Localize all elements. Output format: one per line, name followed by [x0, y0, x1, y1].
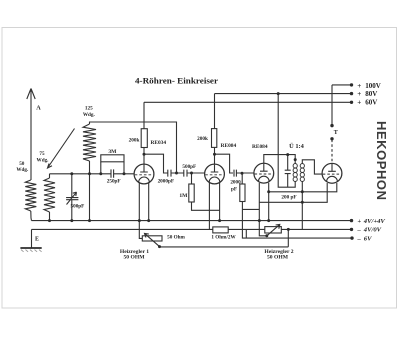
svg-text:6V: 6V [364, 235, 372, 242]
svg-text:4-Röhren- Einkreiser: 4-Röhren- Einkreiser [135, 76, 219, 85]
svg-text:4V/+4V: 4V/+4V [363, 218, 386, 225]
svg-text:200k: 200k [129, 138, 140, 144]
svg-text:125: 125 [85, 106, 93, 112]
svg-text:2000: 2000 [230, 180, 241, 186]
svg-text:200k: 200k [197, 136, 208, 142]
svg-text:200 pF: 200 pF [281, 195, 296, 201]
svg-text:+: + [357, 90, 361, 98]
svg-text:+: + [357, 82, 361, 90]
svg-text:500pF: 500pF [182, 164, 196, 170]
svg-text:Wdg.: Wdg. [83, 112, 96, 118]
svg-text:E: E [35, 237, 39, 243]
svg-text:T: T [334, 130, 338, 136]
svg-text:50 OHM: 50 OHM [124, 255, 146, 261]
svg-text:80V: 80V [365, 90, 377, 98]
svg-text:Wdg.: Wdg. [16, 167, 29, 173]
svg-text:100V: 100V [365, 82, 381, 90]
svg-text:Ü 1:4: Ü 1:4 [289, 143, 305, 150]
svg-text:60V: 60V [365, 99, 377, 107]
svg-text:1M: 1M [179, 193, 188, 199]
svg-text:pF: pF [231, 186, 237, 192]
svg-text:A: A [36, 105, 41, 112]
svg-text:50: 50 [19, 161, 25, 167]
svg-text:RE084: RE084 [221, 143, 237, 149]
svg-text:–: – [357, 235, 362, 242]
svg-text:50 Ohm: 50 Ohm [167, 234, 185, 240]
svg-text:–: – [357, 227, 362, 234]
svg-text:+: + [357, 99, 361, 107]
svg-text:2000pF: 2000pF [158, 179, 174, 185]
svg-text:75: 75 [39, 151, 45, 157]
svg-text:4V/0V: 4V/0V [363, 227, 382, 234]
svg-text:+: + [357, 218, 361, 225]
svg-text:Wdg.: Wdg. [37, 157, 50, 163]
svg-text:250pF: 250pF [107, 179, 121, 185]
svg-text:HEKOPHON: HEKOPHON [374, 121, 389, 201]
svg-text:1 Ohm/2W: 1 Ohm/2W [211, 234, 236, 240]
svg-text:RE034: RE034 [151, 140, 167, 146]
svg-text:500pF: 500pF [71, 203, 85, 209]
svg-text:RE084: RE084 [252, 144, 268, 150]
svg-text:50 OHM: 50 OHM [267, 255, 289, 261]
svg-text:3M: 3M [108, 149, 117, 155]
